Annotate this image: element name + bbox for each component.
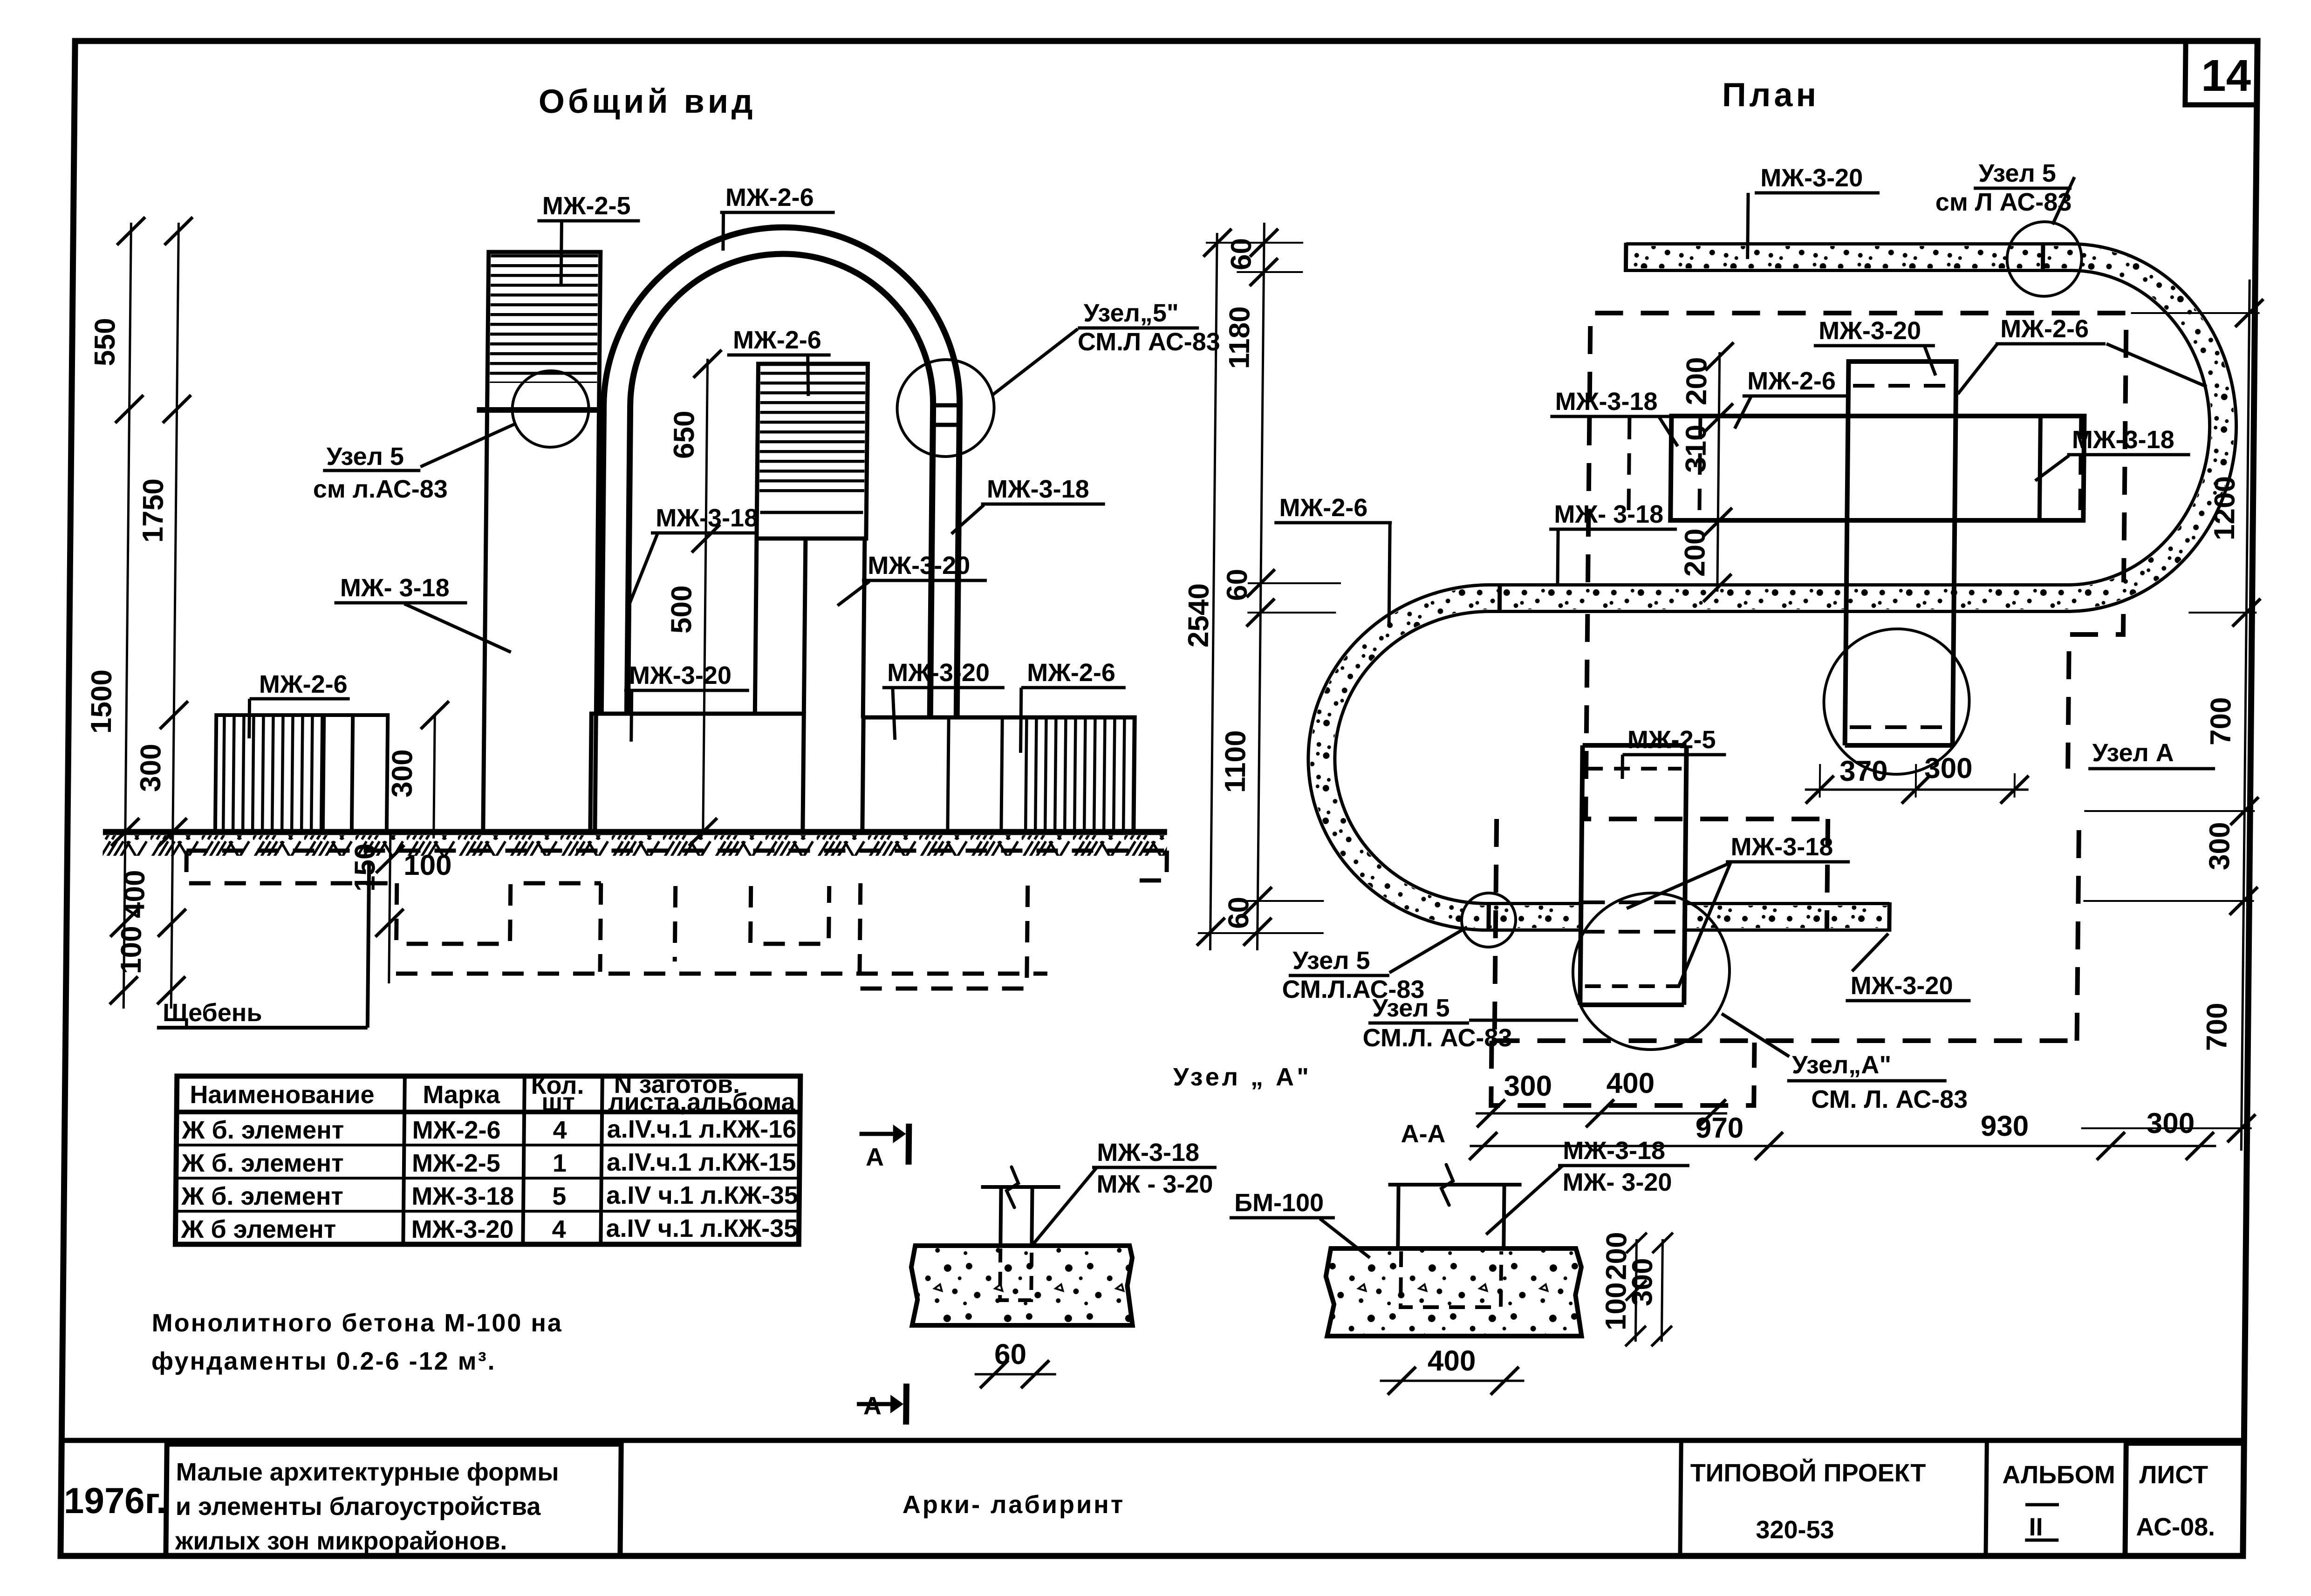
svg-text:Ж б элемент: Ж б элемент	[180, 1215, 336, 1243]
svg-text:Узел 5: Узел 5	[1372, 994, 1450, 1022]
detail circle Узел 5 left	[512, 371, 589, 447]
svg-text:300: 300	[135, 744, 167, 792]
right section side dims 100/200/300	[1635, 1239, 1636, 1342]
svg-text:Узел А: Узел А	[2092, 739, 2174, 767]
specification table	[175, 1076, 800, 1244]
extension lines left chain	[1198, 243, 1344, 933]
svg-text:700: 700	[2205, 697, 2237, 745]
svg-text:фундаменты 0.2-6 -12 м³.: фундаменты 0.2-6 -12 м³.	[151, 1347, 496, 1375]
left plan dim chain inner	[1257, 223, 1264, 950]
title block top line	[62, 1438, 2244, 1443]
svg-text:1200: 1200	[2208, 476, 2241, 540]
left plan dim chain 2540	[1210, 233, 1217, 950]
band joint lower bar	[1486, 902, 1491, 932]
left dim chain inner line	[171, 223, 178, 1009]
svg-text:1500: 1500	[85, 669, 118, 734]
dim 300/400 plan bottom	[1476, 1112, 1727, 1115]
svg-text:1750: 1750	[137, 478, 170, 543]
svg-text:СМ.Л. АС-83: СМ.Л. АС-83	[1362, 1024, 1512, 1052]
svg-text:шт: шт	[541, 1088, 575, 1116]
svg-text:МЖ-3-20: МЖ-3-20	[629, 662, 732, 689]
dim 200/310/200 line	[1717, 352, 1720, 592]
hidden joint dashed left of rect	[1628, 418, 1629, 518]
svg-text:400: 400	[1428, 1345, 1476, 1377]
svg-text:и элементы благоустройства: и элементы благоустройства	[176, 1493, 541, 1521]
detail circle Узел А lower	[1572, 893, 1730, 1050]
svg-text:550: 550	[89, 318, 121, 366]
svg-text:Марка: Марка	[423, 1081, 500, 1109]
svg-text:930: 930	[1980, 1110, 2029, 1142]
svg-text:МЖ-3-18: МЖ-3-18	[1730, 833, 1833, 861]
svg-text:БМ-100: БМ-100	[1234, 1189, 1324, 1217]
svg-text:а.IV.ч.1 л.КЖ-15: а.IV.ч.1 л.КЖ-15	[607, 1148, 796, 1176]
svg-text:4: 4	[553, 1116, 567, 1144]
horizontal element МЖ-3-18 row	[1670, 416, 2084, 520]
svg-text:МЖ-2-6: МЖ-2-6	[725, 184, 814, 211]
deep foundation bottom	[396, 972, 1047, 976]
right foundation step	[1133, 851, 1167, 880]
svg-text:ЛИСТ: ЛИСТ	[2139, 1461, 2208, 1489]
band joint at Узел 5 top	[2041, 243, 2045, 272]
svg-text:СМ.Л АС-83: СМ.Л АС-83	[1078, 328, 1220, 356]
svg-text:Ж б. элемент: Ж б. элемент	[181, 1182, 343, 1210]
svg-text:Наименование: Наименование	[190, 1081, 375, 1109]
right section dashed U	[1401, 1251, 1501, 1307]
svg-text:МЖ-3-20: МЖ-3-20	[1850, 972, 1953, 1000]
svg-text:2540: 2540	[1183, 583, 1215, 648]
labyrinth band centerline: black edge stroke	[1320, 257, 2224, 917]
svg-text:МЖ- 3-18: МЖ- 3-18	[340, 574, 450, 602]
svg-text:СМ. Л. АС-83: СМ. Л. АС-83	[1811, 1085, 1968, 1113]
svg-text:Узел„А": Узел„А"	[1792, 1051, 1892, 1079]
svg-text:МЖ-3-18: МЖ-3-18	[1563, 1137, 1665, 1165]
left low wall МЖ-2-6	[215, 715, 326, 832]
center column lower verticals	[755, 539, 757, 714]
svg-text:МЖ-2-6: МЖ-2-6	[1027, 659, 1115, 687]
pocket under right leg	[860, 883, 1028, 989]
dim 60 left section	[975, 1373, 1056, 1376]
svg-text:Общий вид: Общий вид	[539, 83, 757, 120]
left tall column МЖ-3-18	[483, 252, 601, 832]
right plan dim chain	[2241, 280, 2249, 1151]
svg-text:МЖ-2-5: МЖ-2-5	[412, 1149, 500, 1177]
foundation dashed second level	[186, 851, 397, 883]
arch inner	[627, 254, 935, 717]
band end caps	[1624, 243, 1628, 272]
center column МЖ-2-6 hatched block	[757, 364, 868, 539]
left section concrete block	[911, 1246, 1134, 1325]
svg-text:Узел 5: Узел 5	[1978, 159, 2056, 187]
svg-text:14: 14	[2201, 51, 2251, 101]
svg-text:МЖ- 3-20: МЖ- 3-20	[1562, 1168, 1672, 1196]
svg-text:370: 370	[1839, 755, 1888, 787]
svg-text:100: 100	[403, 849, 452, 881]
dim 370/300	[1805, 789, 2029, 791]
dim 970/930/300	[1470, 1145, 2216, 1147]
joint marks in right circle	[931, 403, 962, 408]
svg-text:300: 300	[1504, 1070, 1552, 1102]
svg-text:А: А	[863, 1392, 882, 1420]
svg-text:300: 300	[2147, 1107, 2195, 1139]
svg-text:Малые архитектурные формы: Малые архитектурные формы	[176, 1458, 559, 1486]
svg-text:А: А	[866, 1143, 884, 1171]
right low wall МЖ-2-6 hatch	[1020, 719, 1133, 830]
trench under arch left leg	[600, 883, 676, 972]
svg-text:300: 300	[1924, 752, 1973, 784]
title block cells	[166, 1440, 167, 1556]
svg-text:МЖ- 3-18: МЖ- 3-18	[1554, 500, 1663, 528]
section A cut mark top	[860, 1132, 893, 1136]
svg-text:500: 500	[665, 586, 698, 634]
svg-text:АЛЬБОМ: АЛЬБОМ	[2002, 1461, 2115, 1489]
right section post/form	[1398, 1185, 1398, 1248]
labyrinth band fill with concrete dots	[1320, 257, 2224, 917]
svg-text:300: 300	[2203, 822, 2236, 870]
svg-text:МЖ-2-6: МЖ-2-6	[733, 326, 821, 354]
svg-text:Ж б. элемент: Ж б. элемент	[181, 1116, 344, 1144]
svg-text:МЖ-2-6: МЖ-2-6	[259, 670, 348, 698]
left dim chain outer line	[123, 223, 131, 1009]
svg-text:МЖ-3-18: МЖ-3-18	[1555, 388, 1657, 416]
svg-text:МЖ-3-18: МЖ-3-18	[2072, 426, 2174, 454]
detail circle Узел 5 plan top	[2007, 222, 2082, 296]
svg-text:1180: 1180	[1223, 306, 1256, 369]
arch МЖ-2-6 outer	[601, 227, 961, 717]
svg-text:Узел 5: Узел 5	[326, 443, 404, 471]
МЖ-2-5 cap hatch	[490, 254, 598, 383]
svg-text:Узел „ А": Узел „ А"	[1173, 1063, 1312, 1091]
svg-text:4: 4	[552, 1215, 566, 1243]
ground hatch band	[103, 835, 1167, 856]
svg-text:МЖ-3-18: МЖ-3-18	[987, 475, 1089, 503]
svg-text:МЖ-2-6: МЖ-2-6	[1747, 367, 1836, 395]
svg-text:150: 150	[349, 844, 382, 892]
big dashed foundation rect top	[1588, 313, 2126, 582]
svg-text:Ж б. элемент: Ж б. элемент	[181, 1149, 344, 1177]
vertical element МЖ-3-20 upper	[1845, 361, 1956, 745]
left section dashed U	[1000, 1248, 1032, 1300]
svg-text:Монолитного бетона М-100 на: Монолитного бетона М-100 на	[151, 1309, 563, 1337]
svg-text:МЖ - 3-20: МЖ - 3-20	[1096, 1170, 1213, 1198]
band hidden through МЖ-2-5	[1583, 899, 1683, 935]
svg-text:МЖ-3-20: МЖ-3-20	[887, 659, 990, 687]
joint solid	[2039, 416, 2040, 520]
svg-text:МЖ-2-6: МЖ-2-6	[2000, 315, 2089, 343]
svg-text:МЖ-2-5: МЖ-2-5	[1627, 726, 1716, 754]
svg-text:МЖ-3-18: МЖ-3-18	[411, 1182, 514, 1210]
svg-text:Узел„5": Узел„5"	[1083, 299, 1179, 327]
svg-text:970: 970	[1695, 1112, 1744, 1144]
svg-text:Арки- лабиринт: Арки- лабиринт	[903, 1491, 1125, 1519]
svg-text:1: 1	[553, 1149, 567, 1177]
svg-text:жилых зон микрорайонов.: жилых зон микрорайонов.	[175, 1527, 507, 1555]
svg-text:План: План	[1722, 76, 1820, 114]
center vertical dim line 650/500	[703, 359, 708, 832]
svg-text:5: 5	[552, 1182, 567, 1210]
dim 400 right section	[1380, 1380, 1525, 1382]
svg-text:700: 700	[2201, 1003, 2233, 1051]
svg-text:а.IV.ч.1 л.КЖ-16: а.IV.ч.1 л.КЖ-16	[607, 1115, 796, 1143]
svg-text:а.IV ч.1 л.КЖ-35: а.IV ч.1 л.КЖ-35	[606, 1214, 798, 1242]
svg-text:МЖ-3-20: МЖ-3-20	[1819, 317, 1921, 345]
svg-text:МЖ-3-18: МЖ-3-18	[1097, 1139, 1199, 1166]
svg-text:1976г.: 1976г.	[64, 1480, 167, 1521]
svg-text:МЖ-3-20: МЖ-3-20	[1760, 164, 1863, 192]
svg-text:200: 200	[1679, 529, 1711, 577]
svg-text:А-А: А-А	[1401, 1120, 1446, 1148]
svg-text:200: 200	[1681, 357, 1713, 405]
svg-text:650: 650	[668, 411, 701, 459]
svg-text:ТИПОВОЙ ПРОЕКТ: ТИПОВОЙ ПРОЕКТ	[1690, 1459, 1926, 1487]
joint line at Узел 5	[477, 407, 605, 413]
svg-text:АС-08.: АС-08.	[2136, 1513, 2215, 1541]
svg-text:см Л АС-83: см Л АС-83	[1935, 188, 2072, 216]
detail circle Узел А upper	[1823, 629, 1970, 774]
left section post	[1000, 1187, 1001, 1246]
sheet number box	[2185, 41, 2257, 105]
pocket under left column	[397, 883, 601, 944]
svg-text:МЖ-3-20: МЖ-3-20	[868, 552, 970, 580]
dashed foundation below middle bar	[1586, 614, 1830, 819]
svg-text:листа,альбома: листа,альбома	[608, 1088, 796, 1116]
svg-text:МЖ-2-6: МЖ-2-6	[1279, 494, 1367, 522]
svg-text:Щебень: Щебень	[163, 999, 262, 1027]
joint dashed left	[1699, 418, 1700, 518]
right pedestal	[862, 717, 1135, 832]
detail circle Узел 5 plan lower	[1461, 893, 1516, 947]
svg-text:300: 300	[386, 750, 419, 798]
МЖ-2-5 element in plan	[1580, 745, 1686, 1005]
svg-text:МЖ-2-5: МЖ-2-5	[542, 192, 630, 220]
band joint middle bar	[1497, 584, 1502, 613]
ground line	[103, 829, 1167, 835]
svg-text:100: 100	[115, 926, 148, 974]
svg-text:II: II	[2029, 1513, 2043, 1541]
svg-text:МЖ-3-20: МЖ-3-20	[411, 1215, 513, 1243]
svg-text:320-53: 320-53	[1756, 1516, 1834, 1544]
detail circle Узел 5 right	[897, 360, 995, 457]
svg-text:60: 60	[994, 1338, 1027, 1371]
svg-text:МЖ-2-6: МЖ-2-6	[412, 1116, 500, 1144]
section A cut mark bottom	[857, 1402, 890, 1406]
central pedestal	[590, 714, 804, 832]
svg-text:1100: 1100	[1219, 730, 1252, 793]
svg-text:а.IV ч.1 л.КЖ-35: а.IV ч.1 л.КЖ-35	[606, 1181, 798, 1209]
joint dashed right	[2080, 418, 2081, 518]
pocket under center	[751, 886, 829, 944]
ticks left chains	[109, 217, 192, 1004]
svg-text:400: 400	[1606, 1067, 1655, 1099]
svg-text:см л.АС-83: см л.АС-83	[313, 475, 448, 503]
svg-text:Узел 5: Узел 5	[1292, 947, 1370, 975]
foundation dashed: upper long line	[186, 849, 1167, 853]
svg-text:300: 300	[1626, 1258, 1659, 1306]
right section А-А block	[1325, 1248, 1582, 1336]
svg-text:310: 310	[1680, 425, 1712, 473]
